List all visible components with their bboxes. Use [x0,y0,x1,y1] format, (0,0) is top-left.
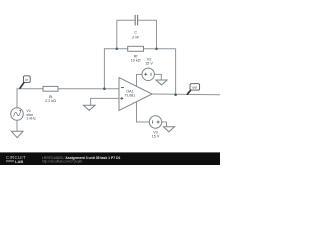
wire non-inverting input to ground [91,98,119,105]
op-amp input polarity marks [120,88,124,100]
wire cap left vertical [117,20,135,49]
ground at V1 [11,131,23,137]
ground at V3 [163,127,174,132]
svg-text:out: out [192,86,197,90]
wire feedback left vertical [103,49,105,89]
wire V1 bottom to ground [16,120,18,131]
sine glyph inside V1 [14,110,21,116]
ground at non-inverting input [83,105,95,110]
wire V1 top to input corner [17,89,43,108]
wire V+ pin to V2 [137,74,143,86]
svg-text:TL081: TL081 [125,94,135,98]
source V1 circle [11,108,24,121]
resistor Rf [128,46,144,51]
svg-text:2.2 kΩ: 2.2 kΩ [45,99,56,103]
node flag out [187,84,199,95]
wire Ri to op-amp inverting input [58,88,119,90]
source V2 circle [142,68,154,80]
wire Rf right to output vertical [144,49,176,95]
resistor Ri [43,86,58,91]
svg-text:15 V: 15 V [145,62,153,66]
wire cap right vertical [138,20,157,49]
svg-text:in: in [25,78,28,82]
svg-text:http://circuitlab.com/c7pvqkb: http://circuitlab.com/c7pvqkb [42,160,82,164]
wire op-amp output [152,93,220,96]
source V3 circle [149,116,161,128]
junction node dots [103,48,177,96]
labels [26,31,159,139]
polarity marks V3 [153,121,160,124]
svg-text:3 nF: 3 nF [132,35,140,39]
polarity marks V2 [144,73,151,76]
svg-text:C: C [134,31,137,35]
svg-text:1 kHz: 1 kHz [26,117,36,121]
op-amp U1 triangle [119,78,152,111]
capacitor C plates [135,15,137,26]
svg-text:15 V: 15 V [152,135,160,139]
wire V2 to ground [154,74,161,80]
ground at V2 [156,80,167,85]
footer logo CIRCUIT LAB [6,155,26,164]
svg-text:LAB: LAB [15,159,23,164]
footer text [42,156,121,164]
wire V- pin to V3 [137,102,150,122]
node flag in [20,76,30,88]
svg-text:10 kΩ: 10 kΩ [131,59,141,63]
wire Rf line [104,48,127,50]
footer bar [0,152,220,165]
wire V3 to ground [162,122,167,127]
